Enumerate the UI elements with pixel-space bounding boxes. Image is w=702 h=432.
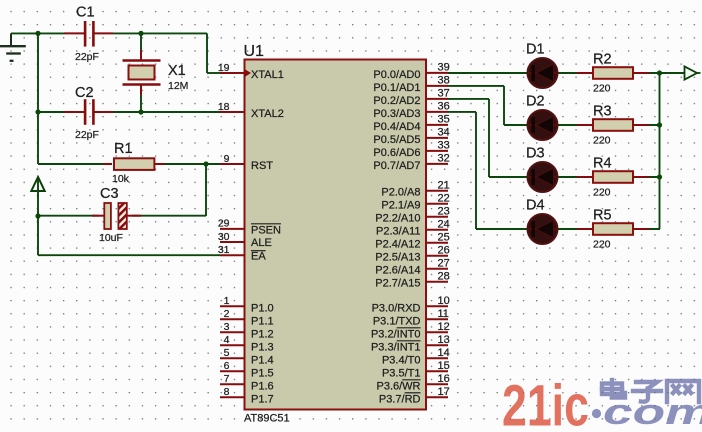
U1 pin 34 P0.5/AD5 stub [426,127,450,139]
svg-text:XTAL2: XTAL2 [251,108,284,120]
U1 pin 3 P1.2 stub [220,321,245,333]
U1 pin 18 XTAL2 stub [218,101,245,113]
svg-text:23: 23 [438,206,450,218]
svg-text:10: 10 [438,295,450,307]
LED D3 [526,146,558,193]
svg-text:D1: D1 [526,42,545,58]
U1 pin 6 P1.5 stub [220,360,245,372]
svg-text:1: 1 [224,295,230,307]
U1 pin 7 P1.6 stub [220,373,245,385]
svg-text:8: 8 [224,386,230,398]
svg-text:10k: 10k [112,173,130,185]
svg-text:D4: D4 [526,198,545,214]
node X1 top junction [138,31,143,36]
wire power rail down to EA row [37,178,39,255]
wire C1 right to X1 top node [113,32,141,34]
svg-text:P1.4: P1.4 [251,354,274,366]
svg-text:P1.2: P1.2 [251,328,274,340]
svg-text:28: 28 [438,271,450,283]
U1 pin 22 P2.1/A9 stub [426,193,450,205]
U1 pin 21 label P2.0/A8 [381,187,420,199]
svg-text:P2.6/A14: P2.6/A14 [375,265,420,277]
U1 pin 2 label P1.1 [251,315,274,327]
U1 pin 36 P0.3/AD3 stub [426,101,450,113]
svg-text:220: 220 [593,135,611,147]
svg-text:P3.7/RD: P3.7/RD [379,393,421,405]
U1 pin 8 label P1.7 [251,393,274,405]
U1 pin 25 P2.4/A12 stub [426,232,450,244]
U1 pin 33 label P0.6/AD6 [373,147,420,159]
U1 pin 18 label XTAL2 [251,108,284,120]
U1 pin 31 EA stub [218,244,245,256]
svg-text:P2.1/A9: P2.1/A9 [381,200,420,212]
ground [0,33,26,60]
svg-text:10uF: 10uF [99,232,123,244]
watermark CJK zi [633,382,661,402]
U1 pin 4 label P1.3 [251,341,274,353]
wire X1 top node to corner then down to pin19 [141,33,222,73]
watermark CJK wang [667,381,699,402]
svg-text:16: 16 [438,373,450,385]
wire bus to output terminal [660,72,685,74]
svg-text:P3.0/RXD: P3.0/RXD [372,302,421,314]
svg-text:14: 14 [438,347,450,359]
capacitor C1 [64,5,113,64]
XTAL1 clock input arrow [245,69,252,77]
node bus junction (660,72) [657,70,662,75]
watermark CJK dian [602,380,625,398]
watermark 21ic logo [502,373,589,432]
wire from RST junction down and left to C3 [132,164,206,216]
U1 pin 15 label P3.5/T1 [382,367,421,379]
svg-text:P0.6/AD6: P0.6/AD6 [373,147,420,159]
svg-text:P0.1/AD1: P0.1/AD1 [373,82,420,94]
svg-text:P1.1: P1.1 [251,315,274,327]
U1 pin 36 label P0.3/AD3 [373,108,420,120]
svg-text:P0.7/AD7: P0.7/AD7 [373,160,420,172]
U1 pin 30 ALE stub [218,231,245,243]
wire rail to R1 left [38,163,108,165]
svg-text:P1.7: P1.7 [251,393,274,405]
U1 pin 14 label P3.4/T0 [382,354,421,366]
svg-text:P3.6/WR: P3.6/WR [376,380,420,392]
svg-text:R1: R1 [114,141,133,157]
svg-text:P2.4/A12: P2.4/A12 [375,239,420,251]
wire C3 left to lower rail [38,215,99,217]
svg-text:35: 35 [438,114,450,126]
svg-text:P2.0/A8: P2.0/A8 [381,187,420,199]
svg-text:P3.3/INT1: P3.3/INT1 [371,341,421,353]
U1 pin 32 P0.7/AD7 stub [426,153,450,165]
U1 pin 5 label P1.4 [251,354,274,366]
svg-text:XTAL1: XTAL1 [251,69,284,81]
wire pin36 to D4 [448,112,528,229]
svg-text:220: 220 [593,187,611,199]
U1 pin 39 label P0.0/AD0 [373,69,420,81]
U1 pin 3 label P1.2 [251,328,274,340]
svg-text:220: 220 [593,83,611,95]
svg-text:39: 39 [438,62,450,74]
svg-text:22pF: 22pF [75,51,99,63]
svg-text:5: 5 [224,347,230,359]
U1 pin 35 label P0.4/AD4 [373,121,420,133]
U1 pin 25 label P2.4/A12 [375,239,420,251]
svg-text:38: 38 [438,75,450,87]
node X1 bottom junction [138,109,143,114]
svg-text:R2: R2 [593,52,612,68]
svg-text:27: 27 [438,258,450,270]
U1 pin 12 label P3.2/INT0 [371,328,421,341]
U1 pin 17 P3.7/RD stub [426,386,450,398]
U1 pin 38 P0.1/AD1 stub [426,75,450,87]
U1 pin 17 label P3.7/RD [379,393,421,406]
svg-text:R5: R5 [593,208,612,224]
node junction (206,164) on RST net [203,161,208,166]
svg-text:18: 18 [218,101,230,113]
resistor R4 [577,156,649,199]
U1 pin 37 label P0.2/AD2 [373,95,420,107]
wire ground to C1 and node A [11,32,64,34]
resistor R1 [103,141,165,185]
U1 pin 10 P3.0/RXD stub [426,295,450,307]
svg-text:13: 13 [438,334,450,346]
wire pin37 to D3 [448,99,528,177]
capacitor C3 electrolytic [92,186,141,244]
U1 pin 11 P3.1/TXD stub [426,308,449,320]
wire R5 to bus [633,228,660,230]
wire C2 row: rail to C2 [38,111,64,113]
wire R4 to bus [633,176,660,178]
resistor R2 [577,52,649,95]
svg-text:37: 37 [438,88,450,100]
U1 pin 39 P0.0/AD0 stub [426,62,450,74]
LED D4 [526,198,558,245]
svg-text:R4: R4 [593,156,612,172]
U1 pin 31 label EA [251,250,266,262]
U1 pin 28 P2.7/A15 stub [426,271,450,283]
svg-text:P1.5: P1.5 [251,367,274,379]
U1 pin 4 P1.3 stub [220,334,245,346]
node junction (38,216) [35,213,40,218]
svg-text:D3: D3 [526,146,545,162]
svg-text:25: 25 [438,232,450,244]
svg-text:P0.2/AD2: P0.2/AD2 [373,95,420,107]
U1 pin 5 P1.4 stub [220,347,245,359]
svg-text:36: 36 [438,101,450,113]
svg-text:P0.5/AD5: P0.5/AD5 [373,134,420,146]
node bus junction (660,124) [657,122,662,127]
U1 pin 33 P0.6/AD6 stub [426,140,450,152]
node A junction (38,32) [35,31,40,36]
wire D4 to R5 [556,228,593,230]
U1 pin 13 P3.3/INT1 stub [426,334,450,346]
wire D1 to R2 [556,72,593,74]
svg-text:6: 6 [224,360,230,372]
node junction (38,111) [35,109,40,114]
svg-text:P1.6: P1.6 [251,380,274,392]
wire R3 to bus [633,124,660,126]
U1 pin 32 label P0.7/AD7 [373,160,420,172]
wire pin38 to D2 [448,86,528,125]
svg-text:C2: C2 [75,85,94,101]
U1 pin 28 label P2.7/A15 [375,278,420,290]
svg-text:X1: X1 [168,63,186,79]
svg-text:R3: R3 [593,104,612,120]
wire D2 to R3 [556,124,593,126]
U1 pin 21 P2.0/A8 stub [426,180,450,192]
U1 pin 13 label P3.3/INT1 [371,341,421,354]
IC U1 AT89C51 body [244,43,427,424]
watermark .com [592,392,702,432]
svg-text:P3.5/T1: P3.5/T1 [382,367,421,379]
svg-text:P2.3/A11: P2.3/A11 [376,226,420,238]
U1 pin 22 label P2.1/A9 [381,200,420,212]
output terminal arrow [685,66,701,79]
U1 pin 9 RST stub [220,153,245,165]
U1 pin 35 P0.4/AD4 stub [426,114,450,126]
wire pin39 to D1 [448,72,528,74]
U1 pin 1 label P1.0 [251,302,274,314]
svg-text:C3: C3 [100,186,119,202]
U1 pin 11 label P3.1/TXD [373,315,421,327]
U1 pin 19 XTAL1 stub [218,62,245,74]
svg-text:C1: C1 [76,5,95,21]
U1 pin 19 label XTAL1 [251,69,284,81]
U1 pin 16 P3.6/WR stub [426,373,450,385]
U1 pin 16 label P3.6/WR [376,380,420,393]
U1 pin 15 P3.5/T1 stub [426,360,450,372]
U1 pin 7 label P1.6 [251,380,274,392]
svg-text:7: 7 [224,373,230,385]
svg-text:RST: RST [251,160,273,172]
U1 pin 2 P1.1 stub [220,308,245,320]
U1 pin 29 label PSEN [251,224,281,237]
svg-text:19: 19 [218,62,230,74]
U1 pin 10 label P3.0/RXD [372,302,421,314]
svg-text:21: 21 [438,180,450,192]
U1 pin 30 label ALE [251,237,272,249]
svg-text:ALE: ALE [251,237,272,249]
svg-text:P1.3: P1.3 [251,341,274,353]
svg-text:33: 33 [438,140,450,152]
svg-text:P0.3/AD3: P0.3/AD3 [373,108,420,120]
wire R1 right to RST pin9 [160,163,222,165]
svg-text:24: 24 [438,219,450,231]
svg-text:15: 15 [438,360,450,372]
U1 pin 1 P1.0 stub [220,295,245,307]
wire C2 right to X1 bottom node to pin18 [113,111,222,113]
svg-text:D2: D2 [526,94,545,110]
svg-text:29: 29 [218,218,230,230]
svg-text:AT89C51: AT89C51 [244,412,290,424]
crystal X1 [123,33,189,112]
U1 pin 24 label P2.3/A11 [376,226,420,238]
resistor R3 [577,104,649,147]
svg-text:P3.1/TXD: P3.1/TXD [373,315,421,327]
wire R2 to bus [633,72,660,74]
svg-text:P3.4/T0: P3.4/T0 [382,354,421,366]
U1 pin 34 label P0.5/AD5 [373,134,420,146]
svg-text:17: 17 [438,386,450,398]
U1 pin 12 P3.2/INT0 stub [426,321,450,333]
svg-text:9: 9 [224,153,230,165]
U1 pin 9 label RST [251,160,273,172]
svg-text:P3.2/INT0: P3.2/INT0 [371,328,421,340]
LED D2 [526,94,558,141]
svg-text:P2.5/A13: P2.5/A13 [375,252,420,264]
U1 pin 27 P2.6/A14 stub [426,258,450,270]
svg-text:2: 2 [224,308,230,320]
U1 pin 6 label P1.5 [251,367,274,379]
svg-text:22pF: 22pF [75,129,99,141]
U1 pin 29 PSEN stub [218,218,245,230]
resistor R5 [577,208,649,251]
U1 pin 14 P3.4/T0 stub [426,347,450,359]
U1 pin 26 label P2.5/A13 [375,252,420,264]
U1 pin 24 P2.3/A11 stub [426,219,450,231]
svg-text:3: 3 [224,321,230,333]
U1 pin 37 P0.2/AD2 stub [426,88,450,100]
wire D3 to R4 [556,176,593,178]
LED D1 [526,42,558,89]
svg-text:P0.0/AD0: P0.0/AD0 [373,69,420,81]
svg-text:26: 26 [438,245,450,257]
U1 pin 23 label P2.2/A10 [375,213,420,225]
capacitor C2 [64,85,113,141]
svg-text:220: 220 [593,239,611,251]
U1 pin 26 P2.5/A13 stub [426,245,450,257]
svg-text:12: 12 [438,321,450,333]
svg-text:EA: EA [251,250,266,262]
svg-text:32: 32 [438,153,450,165]
svg-text:31: 31 [218,244,230,256]
svg-text:22: 22 [438,193,450,205]
svg-text:11: 11 [438,308,449,320]
wire EA row to pin31 [38,254,220,256]
svg-text:P2.7/A15: P2.7/A15 [375,278,420,290]
U1 pin 23 P2.2/A10 stub [426,206,450,218]
svg-text:U1: U1 [244,43,265,60]
node bus junction (660,176) [657,174,662,179]
svg-text:4: 4 [224,334,230,346]
U1 pin 38 label P0.1/AD1 [373,82,420,94]
U1 pin 27 label P2.6/A14 [375,265,420,277]
svg-text:30: 30 [218,231,230,243]
svg-text:12M: 12M [168,80,188,92]
svg-text:P1.0: P1.0 [251,302,274,314]
wire vertical left rail x=38 down to R1 row [37,33,39,164]
svg-text:PSEN: PSEN [251,225,281,237]
wire right vertical bus [659,73,661,229]
svg-text:34: 34 [438,127,450,139]
svg-text:P2.2/A10: P2.2/A10 [375,213,420,225]
svg-text:P0.4/AD4: P0.4/AD4 [373,121,420,133]
power terminal VCC arrow [31,177,44,191]
U1 pin 8 P1.7 stub [220,386,245,398]
